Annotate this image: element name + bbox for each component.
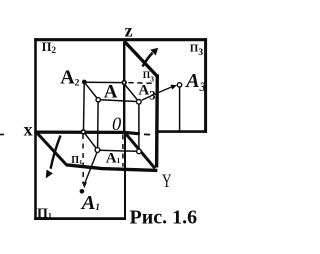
wire Az to A3	[125, 85, 137, 100]
svg-text:A: A	[104, 81, 118, 102]
wire A1 to Ay	[100, 150, 137, 151]
node Az	[122, 81, 126, 85]
y-axis	[125, 133, 155, 169]
wire A2 to Ax	[83, 84, 86, 129]
fold vertical П3 edge	[155, 75, 159, 168]
svg-text:A1: A1	[106, 151, 121, 167]
dashed wire Ax down to folded A1	[82, 134, 84, 184]
svg-text:П1: П1	[71, 155, 82, 166]
svg-text:0: 0	[112, 115, 122, 135]
plane П3 right edge	[204, 38, 207, 133]
rotation arc A3 head	[170, 85, 177, 90]
wire A2 to Az	[86, 81, 124, 83]
point folded A1	[80, 189, 85, 194]
plane П2/П1 left edge	[34, 38, 37, 220]
wire A2 to A	[84, 82, 97, 98]
svg-text:A3: A3	[184, 70, 206, 94]
svg-text:П3: П3	[190, 42, 204, 58]
dashed x extension toward fold	[144, 133, 150, 135]
svg-text:A2: A2	[60, 67, 79, 89]
svg-text:A1: A1	[80, 192, 100, 214]
svg-text:z: z	[125, 21, 133, 41]
svg-text:x: x	[24, 120, 33, 140]
x-axis	[36, 132, 140, 134]
plane П1 bottom edge	[34, 217, 126, 220]
point A3 in space	[137, 100, 142, 105]
plane П1 left diagonal edge	[36, 132, 67, 165]
svg-text:П2: П2	[42, 40, 57, 55]
plane П1 front edge	[66, 165, 158, 171]
dashed wire Az to folded A3	[128, 82, 151, 85]
rotation arrow П1 shaft	[51, 136, 61, 169]
rotation arc A1	[85, 153, 97, 184]
fold diagonal z to П3	[124, 41, 157, 76]
wire A to A3	[100, 100, 136, 102]
svg-text:A3: A3	[138, 83, 155, 103]
folded П1 right edge	[124, 134, 126, 219]
rotation arrow П1 head	[46, 170, 53, 179]
z-axis	[123, 42, 125, 132]
plane П2/П3 top edge	[34, 38, 207, 41]
rotation arc A1 head	[82, 182, 87, 188]
wire A to A1	[97, 102, 100, 147]
point A2	[82, 80, 87, 85]
wire Ax to A1	[85, 134, 96, 149]
rotation arrow П3 shaft	[143, 53, 153, 67]
wire A3 to Ay	[138, 104, 140, 149]
plane П3 bottom edge	[157, 130, 208, 133]
svg-text:Y: Y	[162, 171, 172, 192]
node Ay	[137, 149, 142, 154]
point A1 in space	[95, 148, 100, 153]
point folded A3	[177, 83, 181, 87]
svg-text:П1: П1	[37, 206, 52, 221]
svg-text:Рис. 1.6: Рис. 1.6	[130, 206, 198, 228]
node Ax	[81, 130, 85, 134]
x-axis tail dash	[0, 134, 4, 136]
point A	[96, 98, 100, 102]
wire folded A3 down to П3 bottom	[179, 87, 181, 131]
rotation arc A3	[142, 87, 173, 101]
rotation arrow П3 head	[150, 48, 158, 56]
dashed wire O down	[122, 135, 124, 167]
